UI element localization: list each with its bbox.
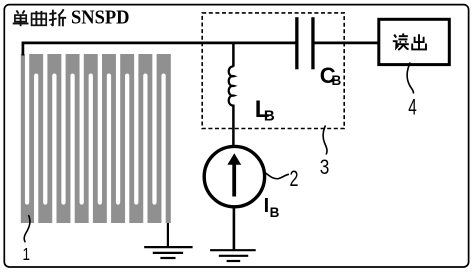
slots open at top (closed bottom) i even [25, 47, 157, 205]
pointer squiggle to 2 [266, 173, 290, 179]
current source I_B (element 2) [204, 146, 264, 206]
text 读出 [393, 33, 426, 50]
svg-text:B: B [270, 205, 280, 220]
wire: inductor bottom lead to current source [232, 105, 235, 147]
readout box (element 4) [379, 19, 450, 64]
label I_B [264, 195, 280, 220]
char 折 [49, 9, 66, 26]
char 曲 [32, 11, 47, 25]
char 出 [412, 34, 426, 49]
pointer squiggle to 1 [24, 215, 30, 242]
svg-text:4: 4 [408, 95, 417, 120]
svg-text:2: 2 [290, 166, 299, 191]
ground under current source [210, 250, 256, 261]
char 读 [393, 33, 409, 50]
slots open at bottom (closed top) i odd [34, 74, 166, 229]
node: junction wire down from rail to inductor [232, 43, 235, 67]
dashed box (bias tee, element 3) [202, 13, 344, 129]
wire: current source bottom lead [233, 207, 236, 250]
svg-text:SNSPD: SNSPD [71, 7, 130, 29]
wire: meander top to main horizontal rail (left segment) [23, 43, 296, 56]
char 单 [13, 10, 29, 26]
capacitor C_B plates [295, 17, 298, 69]
pointer squiggle to 4 [407, 63, 413, 94]
svg-text:B: B [264, 108, 275, 125]
arrow inside current source [232, 164, 236, 197]
svg-text:1: 1 [23, 244, 31, 264]
wire: capacitor right plate to readout box [314, 42, 378, 45]
title 单曲折 SNSPD [13, 9, 66, 26]
ground under meander [144, 223, 192, 258]
pointer squiggle to 3 [323, 126, 327, 155]
label C_B [320, 63, 342, 88]
inductor L_B coil [229, 66, 234, 105]
label L_B [255, 96, 275, 125]
svg-text:I: I [264, 195, 270, 217]
svg-text:3: 3 [320, 155, 330, 179]
SNSPD meander nanowire (element 1) [21, 47, 171, 229]
svg-text:B: B [332, 73, 342, 88]
